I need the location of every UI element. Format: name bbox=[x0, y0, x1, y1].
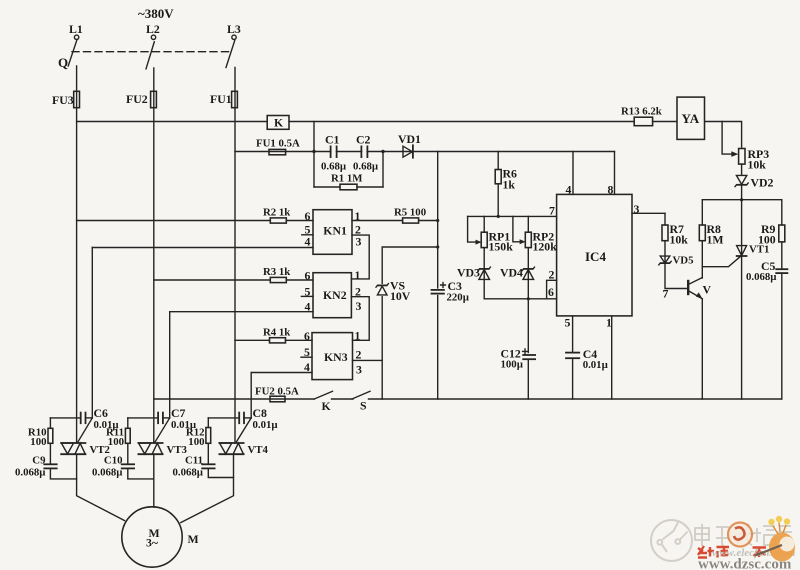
red hanzi weiku bbox=[698, 546, 766, 558]
svg-text:0.68µ: 0.68µ bbox=[321, 161, 347, 173]
mascot bbox=[755, 516, 795, 562]
svg-text:R5 100: R5 100 bbox=[394, 207, 426, 219]
wire VT3 to motor bbox=[153, 454, 155, 507]
wire K line top bus bbox=[77, 121, 268, 123]
svg-text:C11: C11 bbox=[185, 455, 203, 467]
svg-text:L3: L3 bbox=[227, 22, 241, 36]
transistor V bbox=[687, 280, 689, 295]
resistor R4 1k bbox=[235, 339, 270, 341]
svg-text:3: 3 bbox=[356, 299, 362, 313]
gate diagonal VT3 bbox=[155, 418, 170, 443]
diode VD4 bbox=[523, 270, 534, 280]
svg-text:0.068µ: 0.068µ bbox=[92, 467, 123, 479]
svg-text:IC4: IC4 bbox=[585, 249, 606, 264]
svg-text:5: 5 bbox=[304, 345, 310, 359]
zener diode VD5 bbox=[660, 256, 670, 263]
capacitor C2 bbox=[360, 146, 362, 159]
fuse FU2 bbox=[151, 91, 157, 107]
svg-text:~380V: ~380V bbox=[138, 6, 174, 21]
wire phase B vertical bbox=[153, 68, 155, 443]
svg-text:V: V bbox=[703, 283, 712, 297]
wire C3 rail vertical bbox=[437, 152, 439, 288]
wire IC4 pin2 step bbox=[547, 280, 557, 299]
resistor R13 6.2k bbox=[634, 117, 652, 126]
zener diode VD2 bbox=[736, 175, 746, 184]
svg-text:C10: C10 bbox=[104, 455, 123, 467]
svg-text:150k: 150k bbox=[489, 240, 514, 254]
wire VT2 to motor bbox=[77, 454, 125, 520]
svg-text:R2 1k: R2 1k bbox=[263, 207, 290, 219]
svg-text:FU2 0.5A: FU2 0.5A bbox=[255, 386, 299, 398]
resistor R10 100 bbox=[49, 418, 51, 428]
svg-text:FU1 0.5A: FU1 0.5A bbox=[256, 138, 300, 150]
capacitor C4 0.01u bbox=[565, 352, 580, 354]
svg-text:YA: YA bbox=[682, 111, 700, 126]
svg-text:Q: Q bbox=[58, 55, 68, 70]
svg-text:FU3: FU3 bbox=[52, 93, 74, 107]
svg-text:0.01µ: 0.01µ bbox=[253, 419, 279, 431]
watermark hanzi 5 bbox=[778, 526, 792, 546]
wire IC4 pin7 line bbox=[468, 215, 557, 217]
svg-text:R13 6.2k: R13 6.2k bbox=[621, 106, 662, 118]
svg-text:100: 100 bbox=[758, 233, 776, 247]
wire K line to R13 bbox=[289, 121, 634, 123]
triac VT2 bbox=[60, 442, 86, 444]
pin 4 wire IC4 bbox=[572, 152, 574, 195]
svg-text:M: M bbox=[188, 532, 199, 546]
svg-text:VD1: VD1 bbox=[398, 132, 421, 146]
wire emitter to bus bbox=[701, 299, 703, 399]
svg-text:1k: 1k bbox=[503, 178, 516, 192]
svg-text:FU1: FU1 bbox=[210, 92, 232, 106]
resistor R9 100 bbox=[781, 200, 783, 225]
svg-text:3: 3 bbox=[356, 363, 362, 377]
svg-text:7: 7 bbox=[549, 204, 555, 218]
triac VT3 bbox=[138, 442, 164, 444]
svg-text:100: 100 bbox=[30, 436, 46, 448]
wire KN1 pin4 gate feed bbox=[92, 247, 313, 249]
svg-text:3~: 3~ bbox=[146, 536, 159, 550]
switch K on bottom bus bbox=[154, 398, 314, 400]
switch S on bottom bus bbox=[332, 398, 354, 400]
gate diagonal VT2 bbox=[78, 418, 93, 443]
logo circle bbox=[651, 520, 692, 561]
wire YA to RP3 bbox=[706, 122, 742, 148]
capacitor C9 0.068u bbox=[43, 463, 57, 465]
wire VD2 to VT1 bbox=[741, 185, 743, 399]
svg-text:KN3: KN3 bbox=[324, 350, 348, 364]
SECTION: watermark bbox=[651, 516, 796, 570]
relay contact K box bbox=[267, 116, 289, 130]
wire phase A vertical bbox=[76, 66, 78, 443]
fuse FU1 bbox=[232, 91, 238, 107]
wire KN3 pin4 gate feed bbox=[251, 372, 312, 374]
svg-text:8: 8 bbox=[608, 183, 614, 197]
fuse FU1 0.5A bbox=[269, 149, 286, 154]
svg-text:www.dzsc.com: www.dzsc.com bbox=[698, 557, 792, 570]
potentiometer RP2 120k bbox=[513, 216, 523, 241]
watermark hanzi 4 bbox=[753, 526, 775, 545]
svg-text:220µ: 220µ bbox=[447, 292, 470, 304]
svg-text:10k: 10k bbox=[670, 233, 689, 247]
watermark hanzi 2 bbox=[716, 527, 729, 547]
svg-text:3: 3 bbox=[356, 235, 362, 249]
svg-text:C2: C2 bbox=[356, 133, 371, 147]
wire VT4 to motor bbox=[181, 454, 234, 522]
resistor R12 100 bbox=[207, 418, 209, 428]
svg-text:VD5: VD5 bbox=[673, 255, 694, 267]
svg-text:S: S bbox=[360, 399, 367, 413]
resistor R6 1k bbox=[497, 152, 499, 170]
svg-text:FU2: FU2 bbox=[126, 92, 148, 106]
svg-text:1: 1 bbox=[606, 316, 612, 330]
wire right rail bbox=[702, 199, 782, 201]
capacitor C7 0.01u bbox=[128, 417, 157, 419]
zener VS branch wire bbox=[382, 247, 438, 399]
svg-text:1: 1 bbox=[355, 329, 361, 343]
capacitor C1 bbox=[330, 146, 332, 159]
svg-text:0.068µ: 0.068µ bbox=[15, 467, 46, 479]
svg-text:C9: C9 bbox=[32, 455, 46, 467]
resistor R2 1k bbox=[77, 220, 271, 222]
switch Q blade L3 bbox=[226, 41, 235, 68]
trigger module KN2 bbox=[313, 273, 351, 318]
capacitor C10 0.068u bbox=[121, 463, 135, 465]
svg-text:L1: L1 bbox=[69, 22, 83, 36]
diode VD1 bbox=[403, 146, 412, 157]
svg-text:C8: C8 bbox=[253, 406, 268, 420]
pin 1 wire IC4 bbox=[611, 316, 613, 399]
capacitor C6 0.01u bbox=[50, 417, 79, 419]
resistor R8 1M bbox=[701, 200, 703, 225]
svg-text:R1 1M: R1 1M bbox=[331, 173, 362, 185]
resistor R3 1k bbox=[154, 279, 270, 281]
svg-text:6: 6 bbox=[548, 285, 554, 299]
svg-text:6: 6 bbox=[305, 269, 311, 283]
capacitor C8 0.01u bbox=[208, 417, 238, 419]
diode VD3 bbox=[479, 270, 490, 280]
svg-text:3: 3 bbox=[634, 202, 640, 216]
wire FU1a line bbox=[235, 151, 615, 153]
motor M circle bbox=[122, 507, 182, 567]
potentiometer RP3 10k bbox=[722, 122, 733, 155]
wire bottom bus bbox=[369, 398, 782, 400]
thyristor VT1 bbox=[737, 246, 747, 256]
svg-text:VD2: VD2 bbox=[751, 176, 774, 190]
svg-text:VD3: VD3 bbox=[457, 266, 480, 280]
svg-text:0.01µ: 0.01µ bbox=[583, 359, 609, 371]
node junction C1 branch bbox=[312, 150, 315, 153]
svg-text:0.068µ: 0.068µ bbox=[746, 271, 777, 283]
resistor R1 loop bbox=[314, 186, 340, 188]
gate wire VT1 bbox=[702, 256, 740, 266]
svg-text:K: K bbox=[322, 399, 332, 413]
svg-text:KN2: KN2 bbox=[323, 288, 347, 302]
svg-text:4: 4 bbox=[566, 183, 572, 197]
trigger module KN1 bbox=[313, 210, 352, 255]
svg-text:5: 5 bbox=[305, 285, 311, 299]
fuse FU2 0.5A bbox=[270, 396, 285, 402]
svg-text:2: 2 bbox=[549, 268, 555, 282]
capacitor C11 0.068u bbox=[201, 463, 215, 465]
emblem circle orange bbox=[728, 523, 752, 547]
svg-text:0.68µ: 0.68µ bbox=[353, 161, 379, 173]
watermark hanzi 1 bbox=[695, 524, 792, 547]
resistor R7 10k bbox=[664, 213, 666, 225]
svg-text:C7: C7 bbox=[171, 406, 186, 420]
pin 5 wire IC4 bbox=[572, 316, 574, 352]
pin 5 stub KN1 bbox=[302, 234, 313, 236]
pin 8 wire IC4 bbox=[614, 152, 616, 195]
wire KN2 pin4 gate feed bbox=[170, 311, 313, 313]
svg-text:7: 7 bbox=[663, 287, 669, 301]
svg-text:100: 100 bbox=[108, 436, 124, 448]
svg-text:R4 1k: R4 1k bbox=[263, 327, 290, 339]
zener diode VS 10V bbox=[376, 284, 388, 296]
triac VT4 bbox=[219, 442, 245, 444]
capacitor C3 220u electrolytic bbox=[431, 289, 445, 291]
pin 3 wire IC4 bbox=[632, 212, 665, 214]
svg-text:L2: L2 bbox=[146, 22, 160, 36]
switch Q linkage dashed bbox=[72, 51, 231, 53]
svg-text:10V: 10V bbox=[390, 289, 411, 303]
svg-text:5: 5 bbox=[565, 316, 571, 330]
wire VD5 to base bbox=[665, 241, 688, 289]
switch Q blade L2 bbox=[146, 42, 154, 69]
pin 5 stub KN2 bbox=[301, 295, 313, 297]
svg-text:10k: 10k bbox=[748, 158, 767, 172]
wire C1 branch vertical bbox=[313, 122, 315, 188]
svg-text:C1: C1 bbox=[325, 133, 340, 147]
svg-text:VT4: VT4 bbox=[248, 444, 269, 456]
resistor R5 100 bbox=[403, 218, 419, 223]
pin 5 stub KN3 bbox=[301, 356, 312, 358]
svg-text:0.068µ: 0.068µ bbox=[172, 467, 203, 479]
wire IC4 pin6 line bbox=[484, 298, 556, 300]
capacitor C5 0.068u bbox=[775, 268, 788, 270]
fuse FU3 bbox=[74, 91, 80, 107]
wire VD4 down through C12 bbox=[527, 361, 529, 399]
svg-text:4: 4 bbox=[305, 235, 311, 249]
resistor R11 100 bbox=[127, 418, 129, 428]
IC IC4 box bbox=[557, 194, 632, 316]
svg-text:100µ: 100µ bbox=[501, 359, 524, 371]
svg-text:VD4: VD4 bbox=[500, 266, 523, 280]
svg-text:R3 1k: R3 1k bbox=[263, 266, 290, 278]
svg-text:C6: C6 bbox=[94, 406, 109, 420]
watermark hanzi 3 bbox=[735, 524, 754, 546]
svg-text:6: 6 bbox=[304, 329, 310, 343]
svg-text:K: K bbox=[274, 116, 284, 130]
potentiometer RP1 150k bbox=[468, 216, 479, 242]
trigger module KN3 bbox=[312, 333, 353, 380]
svg-text:120k: 120k bbox=[533, 240, 558, 254]
wire phase C vertical bbox=[234, 68, 236, 444]
switch Q blade L1 bbox=[68, 40, 77, 66]
capacitor C12 100u electrolytic bbox=[522, 354, 536, 356]
svg-text:1M: 1M bbox=[707, 233, 724, 247]
svg-text:100: 100 bbox=[188, 436, 204, 448]
svg-text:KN1: KN1 bbox=[323, 224, 347, 238]
electromagnet YA box bbox=[677, 97, 705, 139]
svg-text:6: 6 bbox=[305, 209, 311, 223]
gate diagonal VT4 bbox=[236, 418, 251, 443]
svg-text:2: 2 bbox=[356, 348, 362, 362]
svg-text:1: 1 bbox=[355, 268, 361, 282]
